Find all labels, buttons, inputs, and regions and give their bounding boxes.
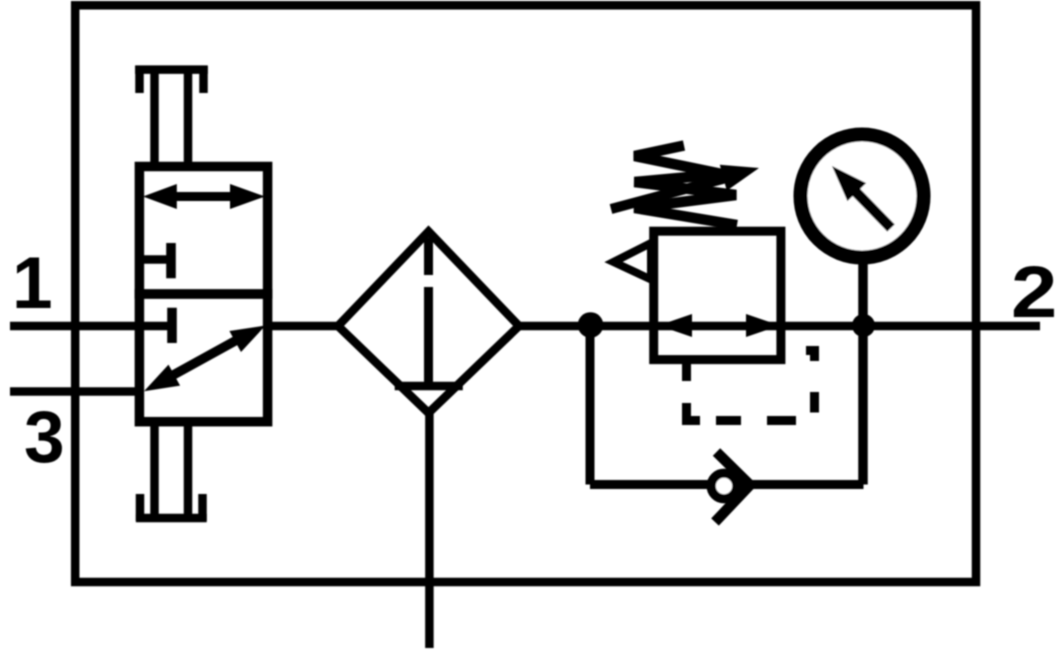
junction node left xyxy=(578,312,604,338)
pressure gauge G1 needle xyxy=(854,190,891,228)
regulator R1 pilot dashed line xyxy=(687,351,815,421)
bypass loop left vertical wire xyxy=(586,326,595,485)
bypass loop bottom wire xyxy=(590,480,864,489)
filter F1 center line lower dash xyxy=(424,287,433,384)
svg-text:2: 2 xyxy=(1011,251,1056,333)
port 2 line xyxy=(864,322,1040,331)
valve V1 body top box (flow position) xyxy=(139,167,267,295)
valve V1 top box double-headed flow arrow xyxy=(143,184,265,209)
svg-text:3: 3 xyxy=(24,397,65,478)
filter F1 center line upper dash xyxy=(424,238,433,275)
port 3 line xyxy=(10,387,144,396)
port 2 label xyxy=(1011,251,1056,333)
pressure gauge G1 dial xyxy=(801,135,924,258)
enclosure border xyxy=(75,5,976,582)
filter F1 condensate drain line xyxy=(425,410,434,648)
valve V1 bottom actuator (manual override plunger) xyxy=(136,422,207,521)
regulator R1 adjustment arrow xyxy=(611,177,730,209)
regulator R1 relief vent triangle xyxy=(614,243,652,280)
valve V1 top actuator (manual override plunger) xyxy=(135,66,208,166)
regulator R1 pilot line solid stub xyxy=(682,360,691,382)
main line valve to filter xyxy=(263,322,342,331)
junction node right xyxy=(852,314,875,337)
regulator R1 flow arrowheads on main line xyxy=(659,314,781,337)
check valve CV1 ball xyxy=(711,473,737,499)
valve V1 top box blocked port T xyxy=(139,243,171,278)
port 1 line xyxy=(10,322,144,331)
filter F1 diamond xyxy=(338,232,519,414)
gauge stem and bypass right vertical wire xyxy=(858,264,868,485)
regulator R1 body box xyxy=(654,231,781,359)
valve V1 bottom box diagonal double-headed arrow (3 to 2 path) xyxy=(144,326,266,392)
svg-text:1: 1 xyxy=(12,243,53,324)
valve V1 bottom box blocked port T xyxy=(139,308,172,343)
check valve CV1 seat xyxy=(715,452,750,522)
regulator R1 adjustment spring (zigzag) xyxy=(635,146,738,226)
filter F1 water separator bar xyxy=(395,382,463,391)
main line filter to port 2 xyxy=(515,322,866,331)
valve V1 body bottom box (exhaust position) xyxy=(139,294,267,422)
